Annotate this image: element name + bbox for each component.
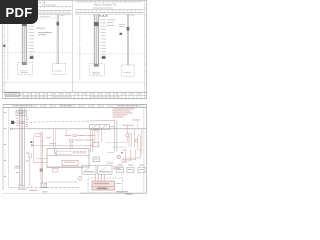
svg-text:ls 78: ls 78: [39, 1, 46, 5]
svg-text:Mario Square 78: Mario Square 78: [94, 3, 117, 7]
